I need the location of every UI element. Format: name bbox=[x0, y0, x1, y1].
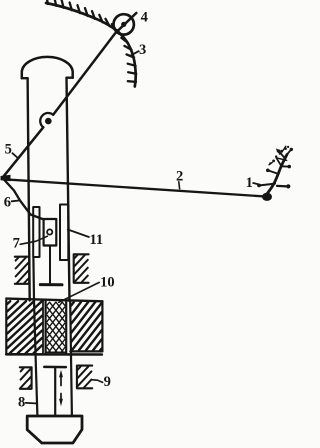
svg-text:6: 6 bbox=[4, 195, 11, 211]
svg-text:4: 4 bbox=[141, 9, 148, 25]
svg-text:7: 7 bbox=[13, 235, 20, 251]
svg-text:11: 11 bbox=[89, 232, 103, 248]
svg-text:2: 2 bbox=[176, 169, 183, 185]
svg-text:9: 9 bbox=[104, 374, 111, 390]
svg-text:1: 1 bbox=[246, 175, 253, 191]
svg-text:10: 10 bbox=[100, 275, 115, 291]
svg-text:3: 3 bbox=[139, 42, 146, 58]
svg-text:8: 8 bbox=[18, 395, 25, 411]
svg-text:5: 5 bbox=[5, 141, 12, 157]
